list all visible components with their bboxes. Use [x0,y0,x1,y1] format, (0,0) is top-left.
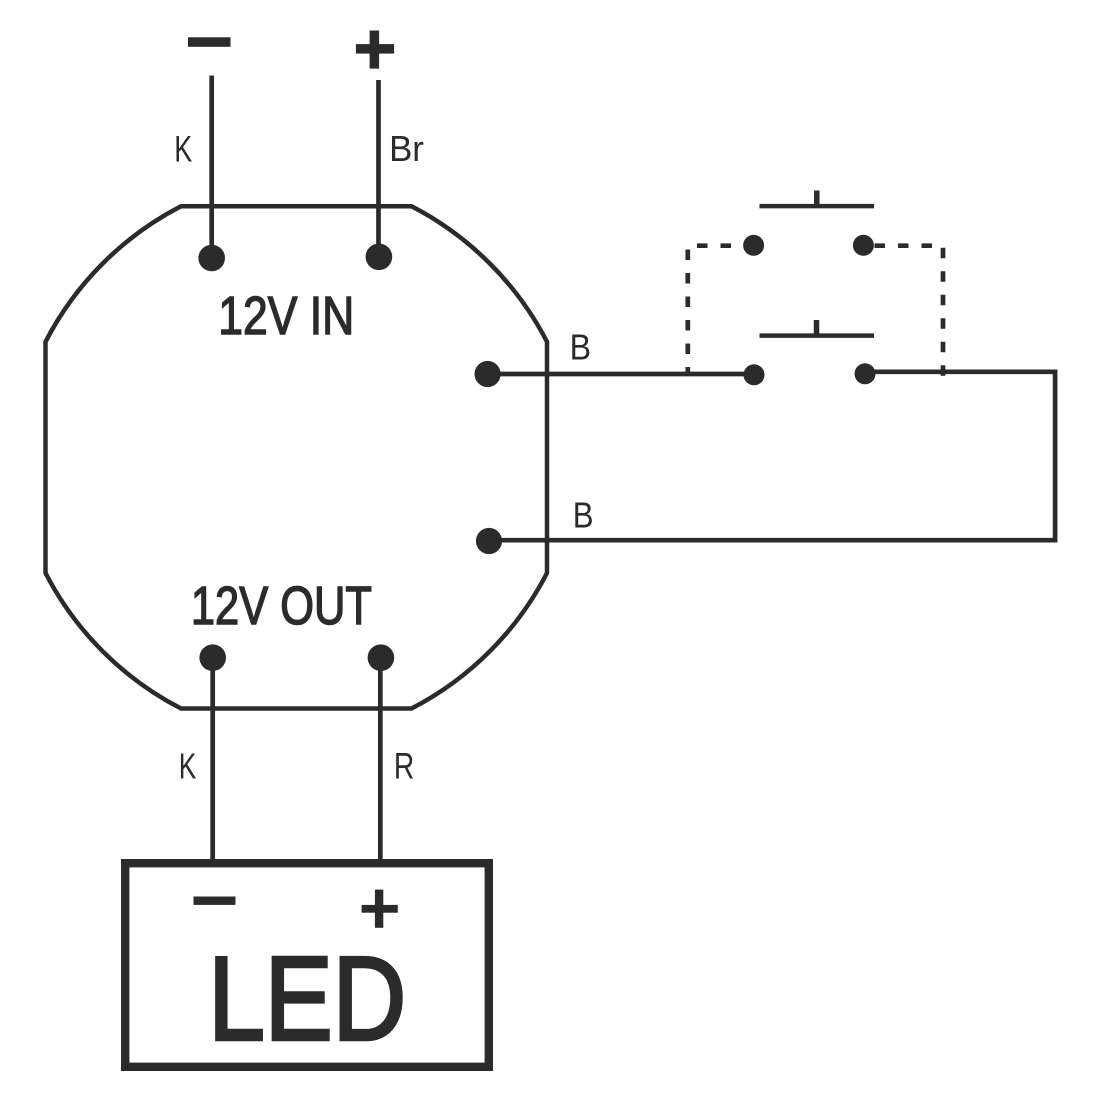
svg-text:12V IN: 12V IN [218,286,354,346]
svg-text:B: B [570,327,592,368]
svg-text:K: K [174,128,192,170]
svg-text:R: R [394,746,414,787]
svg-text:12V OUT: 12V OUT [191,576,372,636]
svg-text:Br: Br [389,128,424,169]
svg-text:B: B [573,495,594,536]
svg-text:LED: LED [208,933,406,1066]
svg-text:K: K [179,746,197,787]
